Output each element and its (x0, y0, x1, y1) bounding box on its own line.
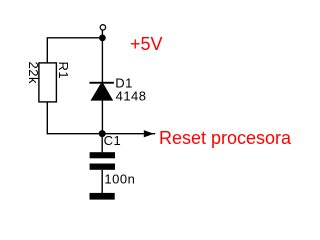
terminal pin circle (supply pin) (100, 25, 105, 30)
svg-text:C1: C1 (104, 133, 122, 148)
diode D1 triangle (91, 84, 114, 101)
resistor R1 body (39, 63, 57, 102)
node +5V junction dot (99, 35, 106, 42)
svg-text:4148: 4148 (116, 88, 147, 103)
capacitor C1 top plate (90, 152, 115, 158)
wire left vertical lower (resistor bottom to bottom rail) (46, 102, 48, 134)
svg-text:22k: 22k (26, 62, 41, 84)
wire bottom horizontal (left branch to node) (47, 133, 102, 135)
capacitor C1 bottom plate (90, 164, 115, 170)
svg-text:+5V: +5V (130, 34, 163, 54)
svg-text:R1: R1 (56, 62, 71, 80)
wire from pin circle to top junction (101, 30, 103, 38)
diode D1 cathode bar (89, 82, 114, 84)
wire capacitor to ground (101, 170, 103, 193)
arrowhead reset output (144, 130, 154, 137)
svg-text:100n: 100n (104, 171, 135, 186)
wire node to capacitor (101, 134, 103, 153)
wire top horizontal to resistor branch (47, 37, 103, 39)
wire left vertical upper (to resistor top) (46, 38, 48, 63)
wire main vertical (junction to diode to C1 node) (101, 38, 103, 134)
ground symbol (90, 193, 115, 200)
svg-text:Reset procesora: Reset procesora (159, 128, 292, 148)
wire to reset output (102, 133, 155, 135)
node C1 junction dot (99, 130, 106, 137)
